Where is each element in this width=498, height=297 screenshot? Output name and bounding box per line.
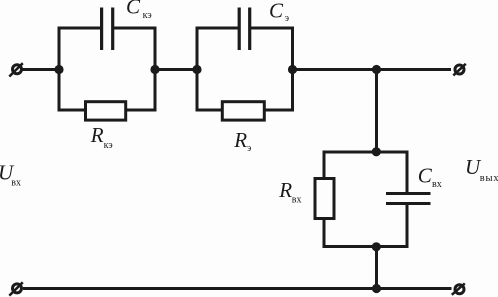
wire: loop3 right vertical lower (from C_vx) [406, 204, 409, 249]
label C_vx (value label of capacitor C_vx) [418, 163, 442, 190]
label R_vx (value label of resistor R_vx) [278, 178, 301, 205]
wire: loop1 bottom-right segment from R_ke [126, 109, 157, 112]
svg-text:C: C [418, 163, 433, 187]
node E (tap to shunt branch) [372, 65, 381, 74]
wire: node E down to node F [375, 70, 378, 154]
wire: loop1 left vertical [58, 27, 61, 112]
label R_e (value label of resistor R_e) [233, 128, 251, 154]
wire: loop1 bottom-left segment to R_ke [58, 109, 87, 112]
node H (shunt branch meets bottom rail) [372, 284, 381, 293]
wire: loop2 bottom-left segment to R_e [196, 109, 224, 112]
svg-text:кэ: кэ [104, 140, 113, 151]
wire: node D to output terminal (through node E) [293, 68, 452, 71]
node B (loop1 right junction) [150, 65, 159, 74]
wire: loop3 top horizontal [323, 151, 409, 154]
resistor R_vx (body, vertical) [315, 179, 334, 219]
svg-text:вх: вх [11, 177, 21, 188]
label R_ke (value label of resistor R_ke) [90, 123, 113, 151]
wire: loop3 right vertical upper (to C_vx) [406, 151, 409, 194]
node G (bottom of shunt loop) [372, 242, 381, 251]
svg-text:вх: вх [292, 194, 302, 205]
svg-text:вых: вых [480, 173, 498, 184]
node A (junction of input wire and first RC loop) [54, 65, 63, 74]
svg-text:R: R [90, 123, 104, 147]
wire: loop2 left vertical [196, 27, 199, 112]
wire: loop3 bottom horizontal [323, 245, 409, 248]
svg-text:вх: вх [432, 179, 442, 190]
wire: bottom rail [23, 287, 452, 290]
terminal: output top (right, on U_vyx port) [453, 64, 466, 76]
resistor R_ke (body) [86, 102, 126, 120]
wire: loop1 top-right segment from C_ke [114, 27, 157, 30]
wire: node B to node C [155, 68, 197, 71]
wire: loop2 top-left segment to C_e [196, 27, 238, 30]
capacitor C_e (plates) [239, 8, 250, 51]
label U_vx (input voltage net) [0, 161, 21, 189]
svg-text:C: C [269, 0, 284, 22]
terminal: input top (left, on U_vx port) [9, 63, 22, 76]
svg-text:C: C [126, 0, 141, 19]
wire: loop3 left vertical upper (to R_vx) [323, 151, 326, 180]
terminal: input bottom (left, on U_vx port) [9, 282, 22, 295]
label C_e (value label of capacitor C_e) [269, 0, 289, 24]
label U_vyx (output voltage net) [465, 155, 498, 184]
svg-text:э: э [285, 13, 289, 24]
node D (loop2 right junction) [288, 65, 297, 74]
node C (loop2 left junction) [192, 65, 201, 74]
svg-text:R: R [233, 128, 247, 152]
wire: input terminal to node A [23, 68, 60, 71]
wire: node G down to node H on bottom rail [375, 247, 378, 289]
svg-text:R: R [278, 178, 292, 202]
wire: loop2 right vertical [291, 27, 294, 112]
node F (top of shunt loop) [372, 147, 381, 156]
terminal: output bottom (right, on U_vyx port) [452, 283, 465, 294]
wire: loop2 bottom-right segment from R_e [264, 109, 295, 112]
svg-text:кэ: кэ [143, 10, 152, 21]
wire: loop2 top-right segment from C_e [251, 27, 294, 30]
capacitor C_vx (plates) [386, 194, 431, 204]
capacitor C_ke (plates) [102, 8, 113, 51]
resistor R_e (body) [222, 102, 264, 120]
label C_ke (value label of capacitor C_ke) [126, 0, 152, 21]
wire: loop3 left vertical lower (from R_vx) [323, 218, 326, 248]
svg-text:э: э [247, 143, 251, 154]
wire: loop1 right vertical [154, 27, 157, 112]
wire: loop1 top-left segment to C_ke [58, 27, 101, 30]
